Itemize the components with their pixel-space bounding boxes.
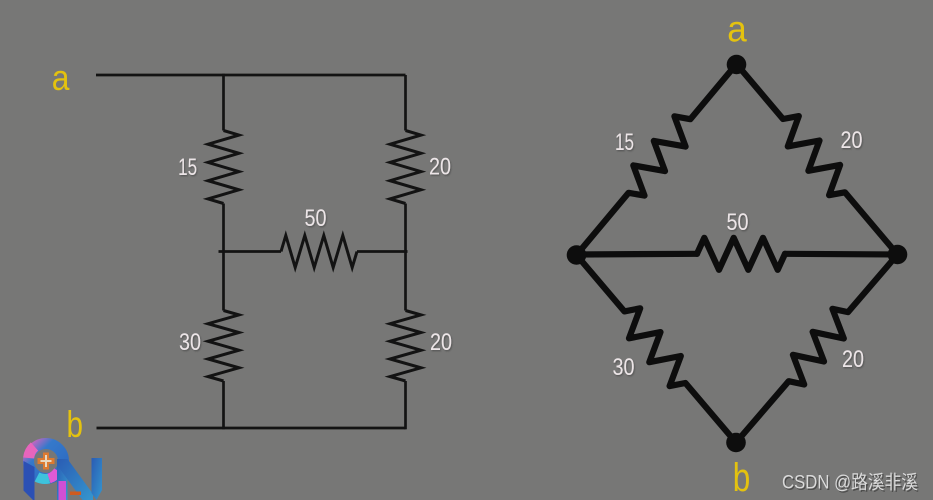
- wire left branch lower: [222, 381, 225, 429]
- svg-text:CSDN @路溪非溪: CSDN @路溪非溪: [782, 472, 918, 494]
- resistor 20 diagonal (right node to node b): [736, 255, 898, 443]
- wire middle left (left node to R50): [577, 251, 698, 258]
- logo P leg: [24, 461, 35, 500]
- logo P magenta bottom-right arc: [49, 471, 59, 479]
- logo plus light core: [41, 455, 52, 467]
- svg-text:b: b: [733, 456, 751, 500]
- wire middle right (R50 to right node): [785, 251, 898, 258]
- left node junction dot: [567, 245, 587, 265]
- right node junction dot: [888, 245, 908, 265]
- logo P cyan bottom arc: [37, 477, 49, 479]
- svg-text:30: 30: [179, 329, 201, 356]
- logo N left stem: [57, 459, 68, 500]
- svg-text:50: 50: [305, 205, 327, 232]
- svg-text:20: 20: [842, 346, 864, 373]
- wire middle horizontal left stub: [219, 250, 282, 253]
- logo N magenta bottom accent: [59, 481, 67, 500]
- svg-text:20: 20: [430, 329, 452, 356]
- resistor R15 (left branch top): [208, 131, 239, 204]
- resistor R30 (left branch bottom): [208, 311, 239, 382]
- svg-text:20: 20: [429, 154, 451, 181]
- svg-text:a: a: [52, 57, 71, 98]
- resistor R20 (right branch top): [390, 131, 421, 204]
- logo N diagonal: [57, 459, 93, 500]
- wire middle horizontal right stub: [357, 250, 408, 253]
- svg-text:15: 15: [178, 154, 197, 181]
- svg-text:20: 20: [841, 127, 863, 154]
- resistor 15 diagonal (node a to left node): [577, 64, 737, 255]
- svg-text:15: 15: [615, 129, 634, 156]
- resistor R20 (right branch bottom): [390, 311, 421, 382]
- logo P ring: [29, 444, 64, 479]
- node b junction dot: [726, 433, 746, 453]
- logo P pink upper-left arc: [29, 447, 35, 459]
- logo orange dash: [70, 492, 81, 496]
- node a junction dot: [727, 55, 747, 75]
- svg-text:b: b: [67, 404, 84, 445]
- logo N right stem: [92, 458, 103, 500]
- resistor 50 (middle horizontal): [697, 238, 785, 270]
- svg-text:a: a: [727, 9, 747, 50]
- wire right branch middle: [404, 204, 407, 311]
- wire right branch lower: [404, 381, 407, 429]
- wire right branch upper: [404, 75, 407, 131]
- wire bottom rail (node b): [97, 427, 406, 430]
- resistor 30 diagonal (left node to node b): [577, 255, 737, 443]
- logo plus orange: [38, 453, 55, 470]
- wire left branch middle: [222, 204, 225, 311]
- svg-text:30: 30: [613, 354, 635, 381]
- wire top rail (node a): [96, 74, 406, 77]
- resistor R50 (middle bridge): [281, 236, 357, 268]
- wire left branch upper: [222, 74, 225, 131]
- resistor 20 diagonal (node a to right node): [737, 64, 898, 255]
- svg-text:50: 50: [727, 209, 749, 236]
